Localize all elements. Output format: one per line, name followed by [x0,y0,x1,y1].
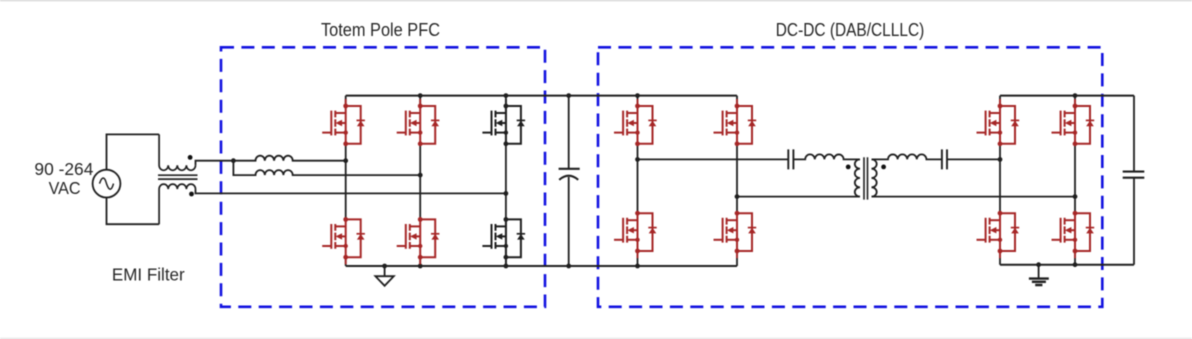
transistor Q4 PFC leg2 low [397,217,440,264]
ground PFC stem [384,266,386,276]
wire: secondary top link with Lr2 and Cr2 [872,154,1001,159]
transistor Q10 DAB legB low [714,211,757,258]
node: bottom rail dc link [566,264,571,269]
transistor Q14 SEC legD low [1052,211,1095,258]
node: bottom rail legA [635,264,640,269]
transformer T1 secondary winding [872,159,877,196]
transistor Q1 PFC leg1 high [322,99,365,146]
capacitor C_dc curved plate [559,176,578,180]
transistor Q3 PFC leg2 high [397,99,440,146]
transformer T1 core [864,157,868,199]
ground SEC stem [1038,265,1040,278]
transformer T1 primary winding [855,159,860,196]
wire: DC link cap branch bottom [568,177,570,266]
transistor Q5 PFC leg3 high [482,99,525,146]
node: bottom rail gnd [382,264,387,269]
wire: DAB legB vertical [736,96,738,266]
transistor Q8 DAB legA low [614,211,657,258]
svg-text:90 -264: 90 -264 [34,159,93,179]
wire: primary top rail [346,95,737,97]
wire: SEC legC vertical [999,96,1001,265]
transformer T1 polarity dot primary [846,165,851,170]
node: sec bottom rail legD [1073,262,1078,267]
transistor Q7 DAB legA high [614,99,657,146]
transistor Q13 SEC legD high [1052,99,1095,146]
wire: PFC leg1 vertical [345,96,347,266]
capacitor Cr1 plates [788,149,793,169]
wire: PFC leg2 vertical [419,96,421,266]
transistor Q2 PFC leg1 low [322,217,365,264]
wire: secondary bottom link [872,196,1076,198]
AC source V1 [93,170,121,198]
wire: phase line A with inductor L1 [196,156,346,166]
wire: neutral line C to leg3 [196,189,506,193]
transformer T1 polarity dot secondary [881,165,886,170]
wire: secondary bottom rail [1000,264,1134,266]
wire: DAB primary bottom link [737,196,860,198]
top page edge line [0,0,1192,1]
node: legA mid [635,157,640,162]
wire: output cap branch bottom [1133,178,1135,265]
svg-text:EMI Filter: EMI Filter [112,264,185,284]
wire: PFC leg3 vertical [505,96,507,266]
node: leg2 mid [418,173,423,178]
svg-text:DC-DC (DAB/CLLLC): DC-DC (DAB/CLLLC) [776,19,925,40]
EMI choke top winding [159,134,195,170]
svg-text:VAC: VAC [49,178,81,198]
transistor Q12 SEC legC low [977,211,1020,258]
EMI choke polarity dot bottom [189,192,194,197]
node: sec bottom rail gnd [1036,262,1041,267]
wire: secondary top rail [1000,95,1134,97]
node: top rail dc link [566,93,571,98]
node: leg1 mid [343,158,348,163]
node: top rail leg3 [504,93,509,98]
wire: AC source loop [107,134,160,224]
capacitor Cr2 plates [942,149,947,169]
wire: DAB legA vertical [637,96,639,266]
node: sec top rail legD [1073,93,1078,98]
capacitor C_out plates [1123,172,1145,178]
wire: phase line B with inductor L2 [233,161,420,175]
dashed block: Totem Pole PFC [221,47,545,307]
ground PFC triangle [375,276,393,286]
EMI choke core [158,175,198,179]
node: bottom rail leg3 [504,264,509,269]
transistor Q11 SEC legC high [977,99,1020,146]
transistor Q9 DAB legB high [714,99,757,146]
node: top rail leg2 [418,93,423,98]
wire: SEC legD vertical [1074,96,1076,265]
node: phase split [231,158,236,163]
EMI choke polarity dot top [188,155,193,160]
transistor Q6 PFC leg3 low [482,217,525,264]
wire: output cap branch top [1133,96,1135,172]
bottom page edge line [0,338,1192,339]
node: legC mid [998,157,1003,162]
capacitor C_dc top plate [559,168,580,170]
EMI choke bottom winding [159,184,195,224]
svg-text:Totem Pole PFC: Totem Pole PFC [321,19,440,40]
node: leg3 mid [504,191,509,196]
node: top rail legA [635,93,640,98]
dashed block: DC-DC (DAB/CLLLC) [598,47,1102,307]
node: legB mid [735,194,740,199]
node: bottom rail leg2 [418,264,423,269]
ground SEC bars [1029,279,1049,285]
node: legD mid [1073,194,1078,199]
wire: DAB primary top link with Cr1 and Lr1 [638,154,861,159]
wire: primary bottom rail [346,265,737,267]
wire: DC link cap branch top [568,96,570,169]
